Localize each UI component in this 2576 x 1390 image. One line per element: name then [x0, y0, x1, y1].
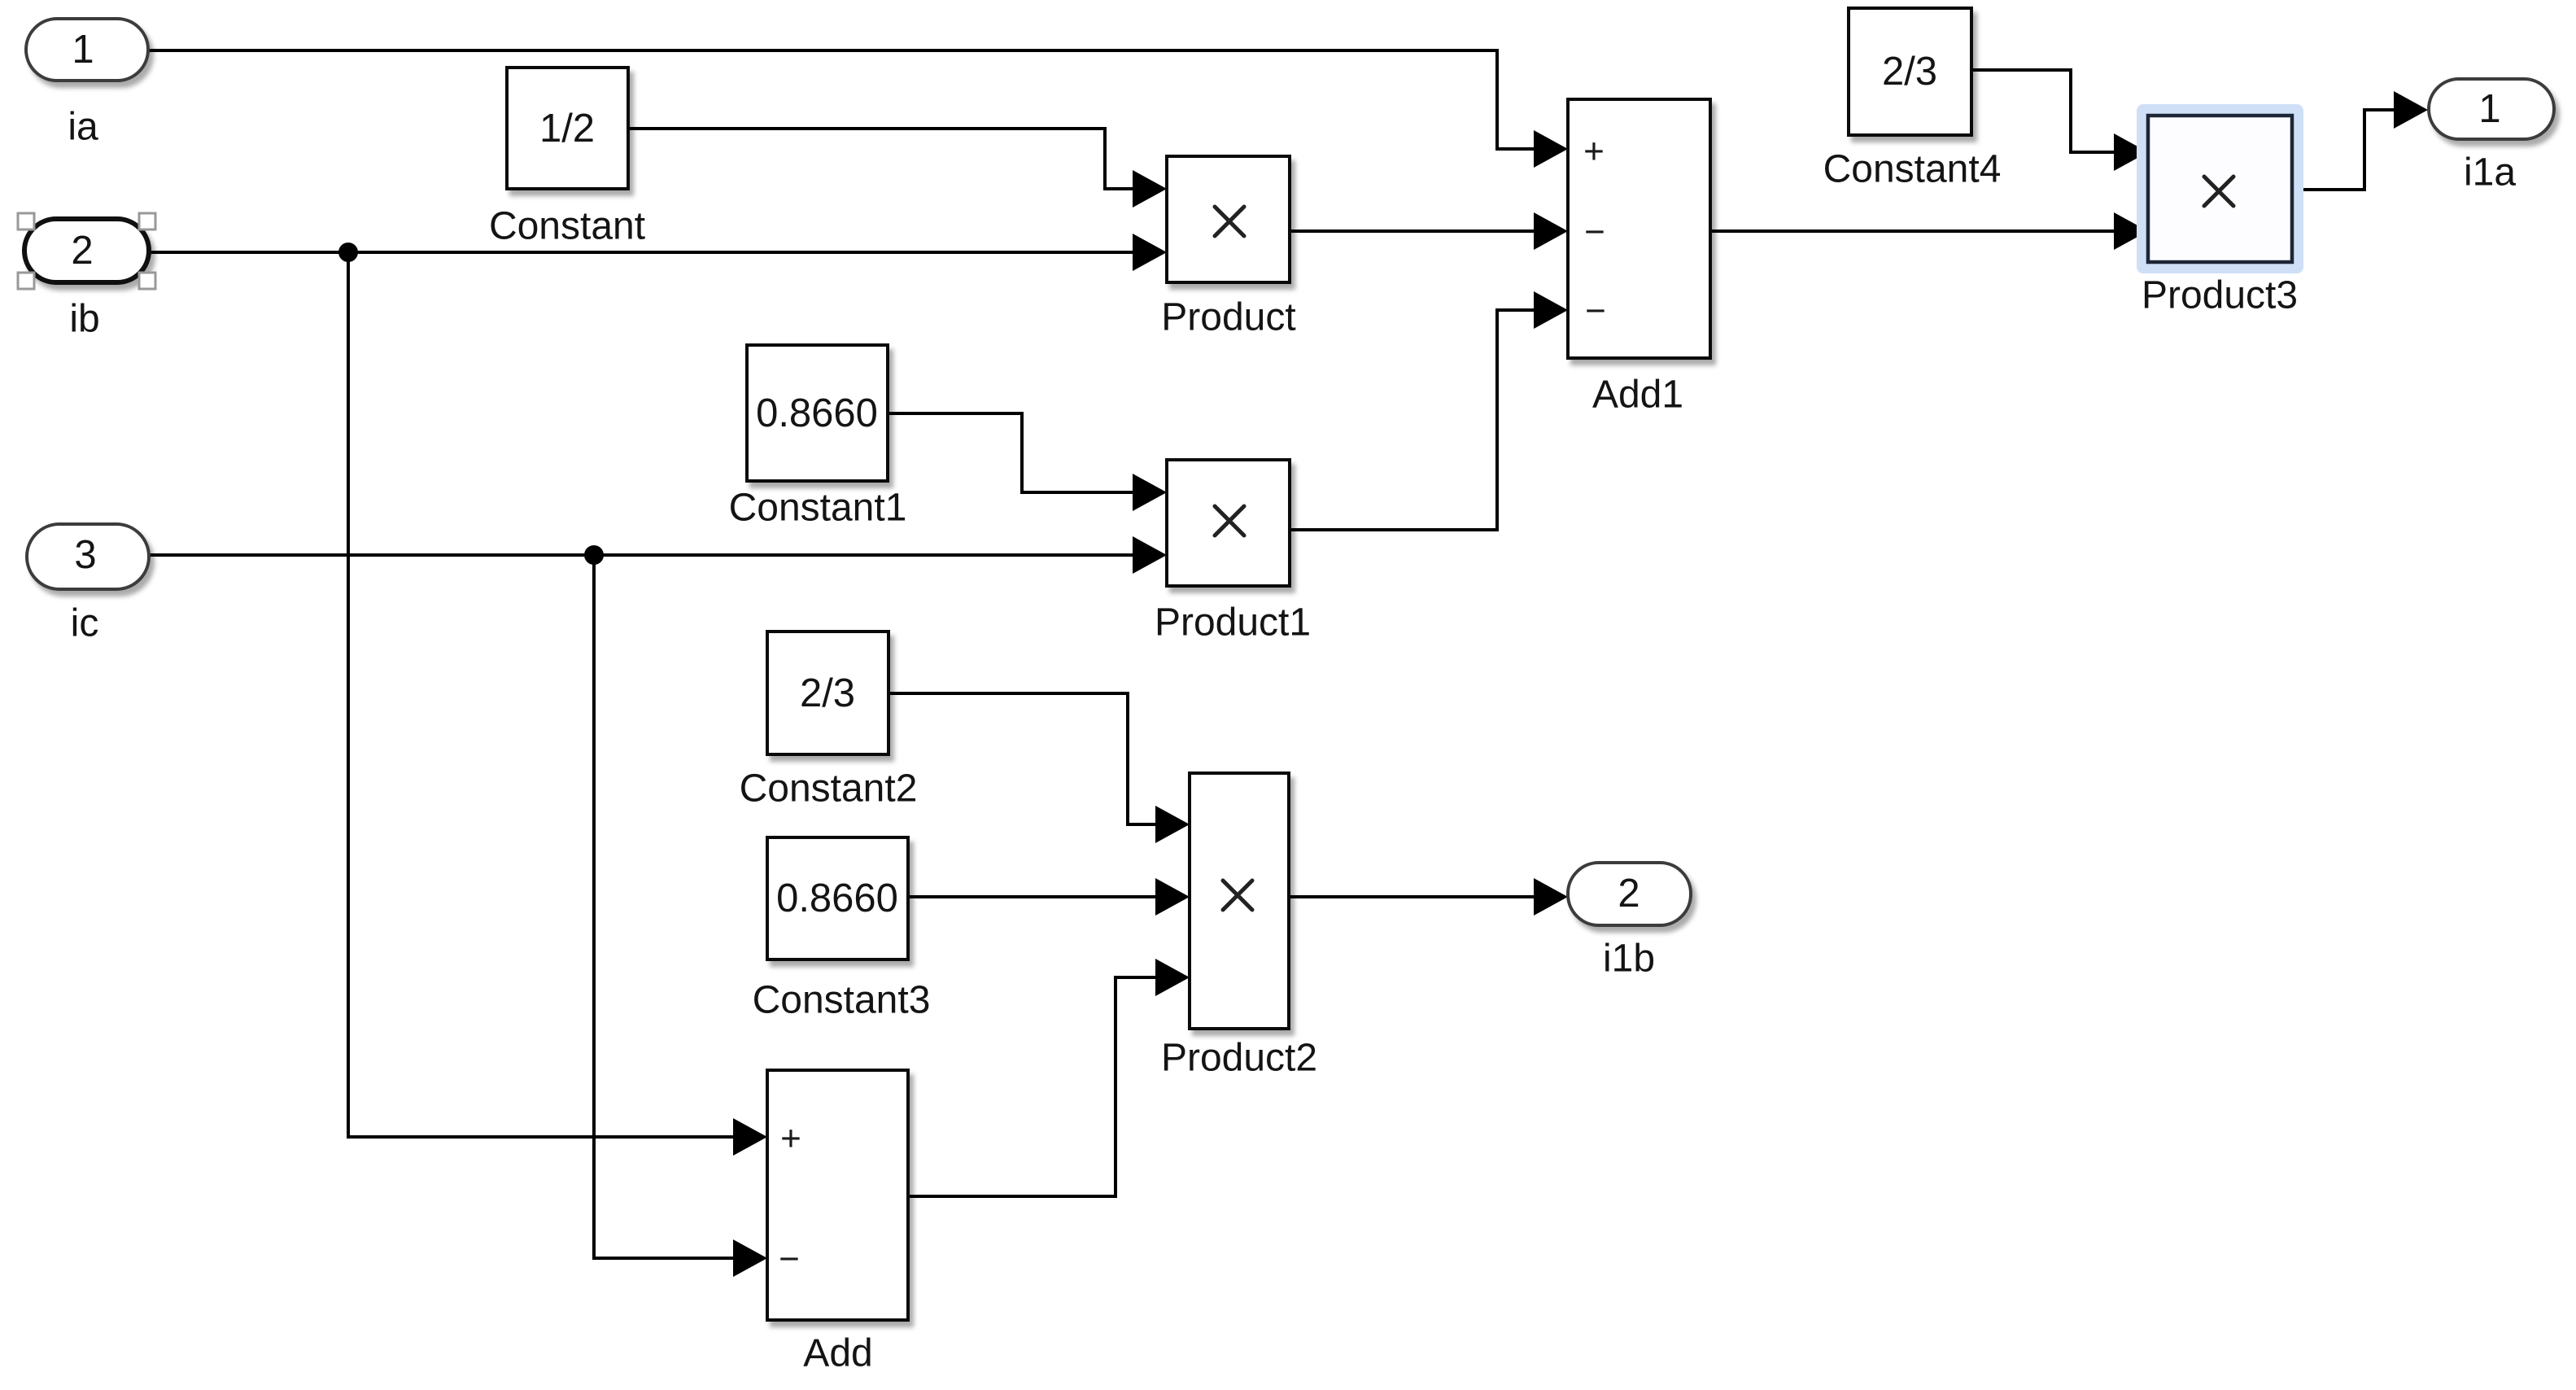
wire Constant2 to Product2 input 1 [889, 693, 1186, 824]
svg-text:0.8660: 0.8660 [756, 391, 878, 435]
arrowhead into Product3 input 1 [2114, 133, 2148, 171]
selection handle bottom-right of ib [139, 273, 155, 289]
arrowhead into Product1 input 1 [1133, 474, 1167, 511]
svg-text:Product1: Product1 [1155, 601, 1311, 645]
wire Product2 output to outport i1b [1289, 895, 1564, 898]
arrowhead into outport i1a [2394, 91, 2428, 129]
node ib junction [338, 243, 358, 262]
arrowhead into Add1 input 3 [1534, 291, 1568, 329]
selection handle top-right of ib [139, 213, 155, 229]
wire ic to Product1 input 2 [149, 553, 1164, 557]
svg-text:i1b: i1b [1603, 938, 1655, 981]
inport 3 ic [27, 524, 149, 589]
constant block Constant4 2/3 [1849, 8, 1971, 135]
svg-text:Product2: Product2 [1161, 1037, 1317, 1080]
arrowhead into Product2 input 2 [1155, 878, 1190, 916]
wire Add output to Product2 input 3 [908, 977, 1186, 1196]
svg-text:2: 2 [71, 229, 93, 273]
svg-text:Product: Product [1161, 296, 1295, 339]
wire Constant4 to Product3 input 1 [1971, 70, 2144, 152]
arrowhead into Product2 input 1 [1155, 806, 1190, 843]
arrowhead into Add input 2 [733, 1239, 767, 1277]
node ic junction [584, 545, 604, 565]
outport 1 i1a [2429, 79, 2554, 139]
arrowhead into Product2 input 3 [1155, 959, 1190, 996]
outport 2 i1b [1568, 863, 1691, 925]
product block Product1 [1167, 460, 1290, 586]
product block Product [1167, 156, 1290, 282]
arrowhead into Product input 2 [1133, 234, 1167, 271]
arrowhead into Add1 input 2 [1534, 212, 1568, 250]
svg-text:ib: ib [69, 298, 99, 341]
svg-text:−: − [1584, 212, 1605, 252]
constant block Constant1 0.8660 [747, 345, 888, 481]
arrowhead into Product input 1 [1133, 170, 1167, 208]
svg-text:ic: ic [71, 602, 99, 645]
svg-text:ia: ia [68, 106, 98, 149]
wire Constant1 to Product1 input 1 [888, 413, 1164, 492]
arrowhead into Product1 input 2 [1133, 536, 1167, 574]
wire ib junction down to Add plus input [348, 252, 763, 1137]
wire Constant to Product input 1 [628, 129, 1164, 189]
svg-text:Constant4: Constant4 [1823, 148, 2002, 191]
inport 2 ib selected [24, 219, 149, 282]
svg-text:Constant2: Constant2 [740, 767, 918, 811]
svg-text:Add: Add [803, 1332, 872, 1375]
arrowhead into Add1 input 1 [1534, 130, 1568, 168]
wire Constant3 to Product2 input 2 [908, 895, 1186, 898]
svg-text:−: − [779, 1239, 800, 1279]
wire ia to Add1 plus input [148, 50, 1564, 149]
wire Product3 output to outport i1a [2292, 110, 2425, 190]
svg-text:Add1: Add1 [1592, 374, 1683, 417]
wire ib to Product input 2 [149, 251, 1164, 254]
arrowhead into Product3 input 2 [2114, 212, 2148, 250]
constant block Constant2 2/3 [767, 632, 889, 754]
constant block Constant3 0.8660 [767, 837, 908, 959]
constant block Constant 1/2 [507, 68, 628, 189]
svg-text:i1a: i1a [2464, 151, 2516, 195]
inport 1 ia [26, 19, 148, 81]
selection handle bottom-left of ib [18, 273, 34, 289]
product block Product3 selected [2137, 104, 2303, 273]
svg-text:1: 1 [72, 28, 94, 72]
wire Product output to Add1 input 2 [1290, 229, 1564, 233]
wire Product1 output to Add1 input 3 [1290, 310, 1564, 530]
svg-text:Constant1: Constant1 [729, 487, 907, 530]
svg-text:2/3: 2/3 [1882, 50, 1937, 94]
svg-text:Product3: Product3 [2142, 274, 2298, 317]
svg-text:3: 3 [74, 533, 96, 577]
svg-text:1/2: 1/2 [539, 107, 595, 151]
svg-text:+: + [780, 1119, 801, 1159]
svg-text:2/3: 2/3 [800, 671, 855, 715]
svg-text:1: 1 [2478, 87, 2500, 131]
product block Product2 [1190, 773, 1289, 1029]
arrowhead into Add input 1 [733, 1118, 767, 1156]
add block Add1 [1568, 99, 1710, 358]
svg-text:2: 2 [1618, 872, 1639, 916]
add block Add [767, 1070, 908, 1320]
svg-text:−: − [1585, 291, 1606, 331]
selection handle top-left of ib [18, 213, 34, 229]
wire Add1 output to Product3 input 2 [1710, 229, 2144, 233]
svg-text:Constant3: Constant3 [753, 979, 931, 1022]
svg-text:0.8660: 0.8660 [776, 876, 898, 920]
svg-text:Constant: Constant [489, 205, 645, 248]
wire ic junction down to Add minus input [594, 555, 763, 1258]
arrowhead into outport i1b [1534, 878, 1568, 916]
svg-text:+: + [1583, 132, 1605, 172]
